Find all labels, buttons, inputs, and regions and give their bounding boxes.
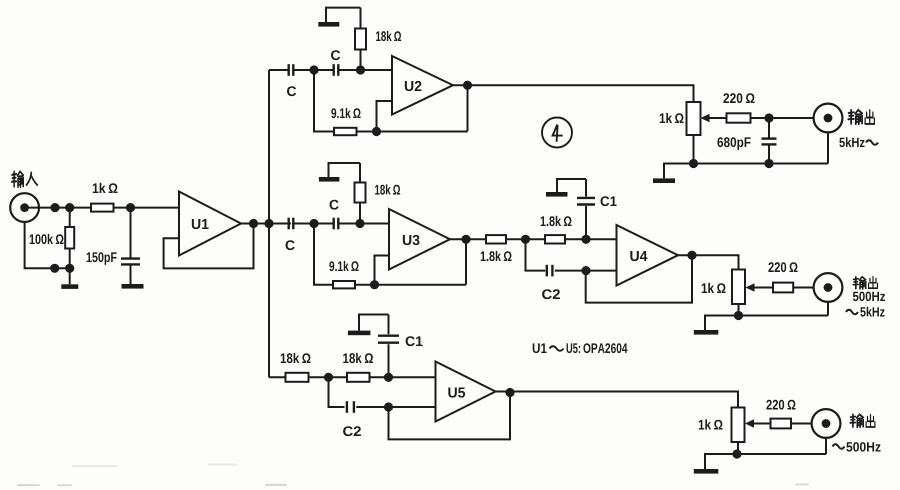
potentiometer 1kΩ (bot) <box>732 408 745 443</box>
wire 18k link (bot) <box>309 376 348 378</box>
op-amp U3 <box>389 209 450 270</box>
potentiometer 1kΩ (top) <box>687 102 701 135</box>
node bus junction (mid branch) <box>264 219 273 228</box>
wire U3 output feedback drop <box>465 239 467 284</box>
ground (150pF) <box>122 284 144 289</box>
wiper arrow (top pot) <box>707 117 727 119</box>
wire 18k to U5 <box>370 376 436 378</box>
ground (mid 18kΩ) <box>319 177 340 182</box>
capacitor C2 (bot) <box>329 377 345 407</box>
resistor 18kΩ (bot first) <box>286 373 309 382</box>
output label ~500Hz <box>833 444 845 449</box>
capacitor C (top second) <box>333 64 335 76</box>
wire feedback step to U3 <box>375 256 390 285</box>
output label 输出 (mid) <box>853 277 865 289</box>
resistor 220Ω (mid) <box>773 283 793 293</box>
op-amp U1 <box>179 192 241 256</box>
output label 输出 (bot) <box>850 414 863 427</box>
node pot bottom (bot) <box>732 449 741 458</box>
wire pot bottom rail (top) <box>693 135 695 164</box>
node mid junction 2 <box>355 219 364 228</box>
ground (top output) <box>653 178 675 183</box>
capacitor C (top first) <box>288 64 290 76</box>
node C2 junction (mid) <box>581 266 590 275</box>
node top junction 2 <box>356 65 365 74</box>
wire 9.1k to feedback node (mid) <box>355 284 466 286</box>
ground (mid C1) <box>546 192 568 197</box>
node U1 output <box>249 219 258 228</box>
node input junction A <box>50 203 59 212</box>
wire 220 to output jack (bot) <box>791 423 812 425</box>
wire U5 output to pot <box>496 392 739 408</box>
wire 220 to output jack (top) <box>751 117 814 119</box>
wire C1 to ground (bot) <box>359 315 389 331</box>
node top junction 1 <box>309 65 318 74</box>
capacitor C (mid first) <box>288 218 290 230</box>
resistor 100kΩ <box>69 208 71 227</box>
wire U3 output to 1.8k <box>450 238 486 240</box>
node pot bottom (top) <box>689 159 698 168</box>
wire bus to cap C (top) <box>269 69 289 71</box>
node pot bottom (mid) <box>734 311 743 320</box>
wire U4 output to pot <box>678 255 739 269</box>
node U3 output <box>461 235 470 244</box>
scan smudges bottom edge <box>17 484 809 487</box>
op-amp U2 <box>392 56 453 115</box>
resistor 9.1kΩ (top) <box>334 128 357 135</box>
output label 5kHz~ <box>839 137 864 147</box>
ground (100kΩ) <box>69 268 71 284</box>
resistor 18kΩ (bot second) <box>347 373 370 382</box>
wiper arrow (mid pot) <box>752 287 774 289</box>
node shield junction B <box>65 264 74 273</box>
wire feedback step to U2 <box>377 101 393 132</box>
wire U2 output to pot <box>453 85 694 102</box>
wire U5 feedback <box>389 393 511 440</box>
wire 1k resistor to U1 <box>114 207 180 209</box>
node 150pF top junction <box>126 203 135 212</box>
node mid junction 1 <box>309 219 318 228</box>
wire cap to U2 input <box>338 69 392 71</box>
input label 输入 <box>12 172 24 187</box>
ground (bot output) <box>694 469 719 474</box>
node U4 output <box>687 251 696 260</box>
wire U1 feedback <box>164 224 254 269</box>
output connector (500Hz-5kHz) <box>814 273 843 302</box>
ground (mid output) <box>694 330 719 335</box>
wire U1 output to bus <box>241 223 291 225</box>
wire 1.8k link <box>506 238 545 240</box>
wire caps link (mid) <box>293 223 333 225</box>
wire input shield loop <box>25 222 70 268</box>
wiper arrow (bot pot) <box>751 423 771 425</box>
node input junction B <box>65 203 74 212</box>
output label 输出 (top) <box>848 110 862 124</box>
node top feedback junction <box>372 127 381 136</box>
output connector (500Hz) <box>812 409 841 438</box>
node bot junction 2 <box>384 373 393 382</box>
wire pot bottom rail (mid) <box>738 304 740 316</box>
node U2 output <box>463 81 472 90</box>
node U5 output <box>505 388 514 397</box>
node shield junction A <box>50 264 59 273</box>
wire 18k to ground (top) <box>326 8 361 22</box>
wire C1 to ground (mid) <box>557 179 586 192</box>
capacitor 680pF <box>768 118 770 139</box>
op-amp U4 <box>617 225 679 286</box>
capacitor C (mid second) <box>333 218 335 230</box>
output connector (5kHz) <box>814 104 843 133</box>
wire pot bottom rail (bot) <box>737 442 739 454</box>
node mid feedback junction <box>370 280 379 289</box>
wire to ground (mid out) <box>705 316 739 331</box>
wire input to 1k resistor <box>25 207 91 209</box>
wire bus corner to 18k <box>269 376 286 378</box>
node bot junction 1 <box>324 373 333 382</box>
resistor 220Ω (bot) <box>771 419 792 429</box>
ground (bot C1) <box>348 331 371 336</box>
resistor 1.8kΩ (first) <box>486 235 506 243</box>
wire caps link (top) <box>293 69 333 71</box>
output label 500Hz <box>853 292 885 302</box>
node mid filter junction 1 <box>521 235 530 244</box>
node mid filter junction 2 <box>581 235 590 244</box>
wire to ground (bot out) <box>705 454 738 469</box>
resistor 1.8kΩ (second) <box>545 235 565 243</box>
wire vertical bus <box>268 70 270 377</box>
output label ~5kHz <box>846 310 858 315</box>
note U1~U5: OPA2604 <box>533 343 547 353</box>
callout circle 4 <box>542 118 572 148</box>
capacitor C1 (bot) <box>388 344 390 377</box>
node 680pF bottom (top) <box>764 159 773 168</box>
wire U2 output feedback drop <box>467 85 469 131</box>
op-amp U5 <box>436 362 496 422</box>
resistor 18kΩ (top) <box>360 50 362 71</box>
ground (top 18kΩ) <box>318 22 339 27</box>
resistor 220Ω (top) <box>727 113 751 122</box>
wire 18k to ground (mid) <box>329 163 361 177</box>
wire to ground (top out) <box>664 164 694 179</box>
resistor 9.1kΩ (mid) <box>333 281 355 288</box>
capacitor C1 (mid) <box>585 206 587 239</box>
node C2 junction (bot) <box>384 402 393 411</box>
wire U3 inverting input loop <box>314 224 333 285</box>
wire 220 to output jack (mid) <box>793 287 813 289</box>
wire 1.8k to U4 <box>565 238 617 240</box>
wire U4 feedback <box>586 255 692 302</box>
resistor 1kΩ (input) <box>91 204 114 212</box>
capacitor C2 (mid) <box>526 239 546 270</box>
wire U2 inverting input loop <box>314 70 334 132</box>
input connector J1 <box>10 193 39 222</box>
wire 9.1k to feedback node (top) <box>357 131 468 133</box>
node 680pF top junction <box>764 113 773 122</box>
potentiometer 1kΩ (mid) <box>732 270 745 305</box>
resistor 18kΩ (mid) <box>359 203 361 224</box>
capacitor 150pF <box>130 208 132 259</box>
wire cap to U3 input <box>338 223 389 225</box>
